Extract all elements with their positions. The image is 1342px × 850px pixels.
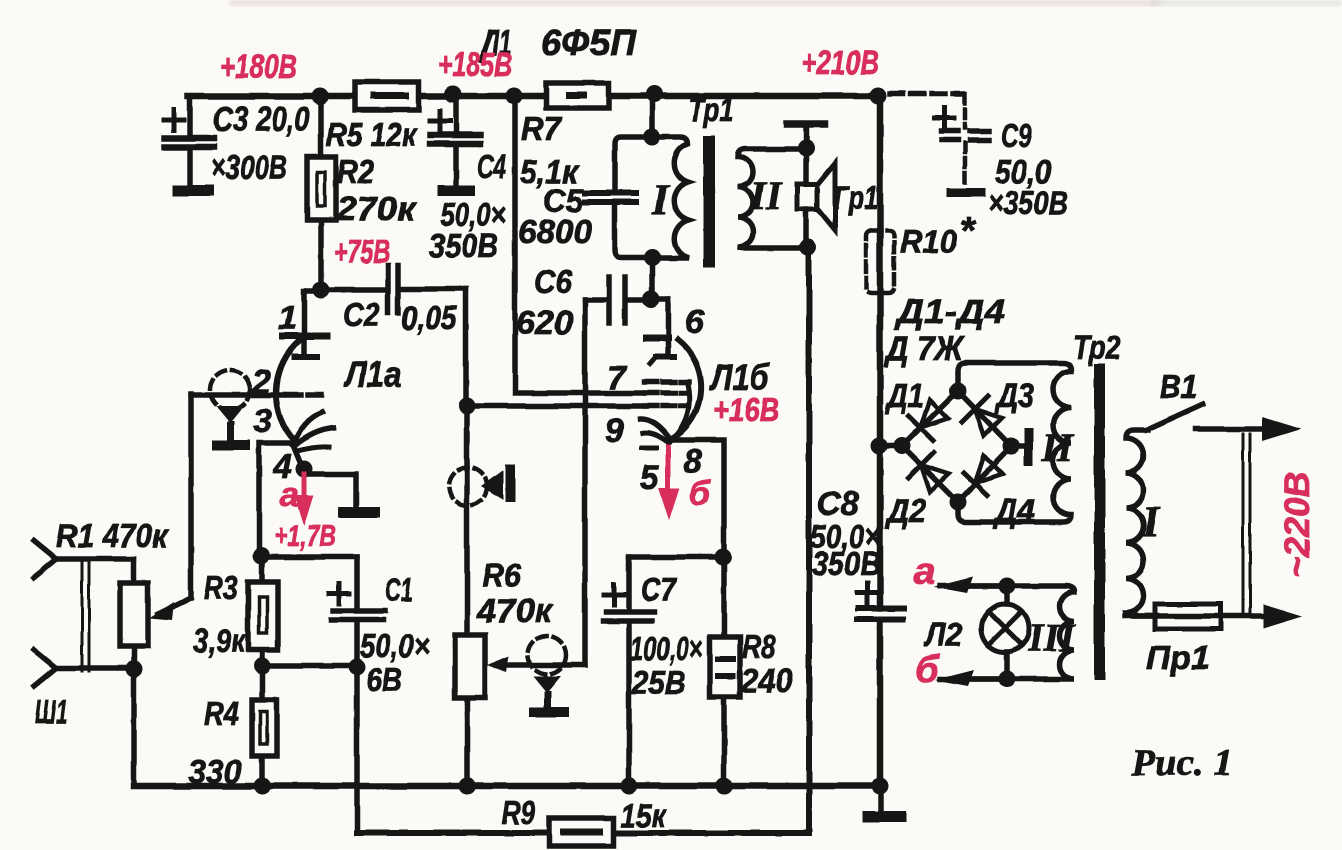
svg-text:620: 620: [516, 304, 574, 341]
svg-text:I: I: [1141, 497, 1161, 546]
node C1 bottom junction: [349, 659, 366, 676]
svg-text:C8: C8: [816, 485, 860, 522]
wire speaker bottom stem: [803, 209, 809, 247]
svg-text:350В: 350В: [812, 545, 881, 582]
test jack socket at R6: [528, 636, 569, 717]
envelope L1a: [276, 340, 300, 441]
test jack socket at grid: [210, 370, 250, 450]
input connector Sh1: [34, 541, 136, 686]
node anode C6 junction: [643, 291, 660, 308]
envelope L1b: [668, 340, 701, 441]
svg-text:15к: 15к: [621, 797, 667, 834]
capacitor C3: [164, 96, 214, 196]
node grid feed junction: [459, 398, 476, 415]
red measure arrow a at L1a: [296, 474, 312, 522]
svg-text:+185В: +185В: [438, 46, 512, 84]
diode bridge D1-D4: [871, 383, 1034, 511]
mains connector double line: [1243, 434, 1250, 617]
svg-text:III: III: [1027, 615, 1076, 660]
node screen rail junction: [506, 88, 523, 105]
transformer Tr2 winding II loop from bridge: [958, 363, 1071, 522]
resistor R2: [307, 96, 336, 290]
wiper R6: [497, 662, 585, 668]
svg-text:C3 20,0: C3 20,0: [213, 100, 310, 139]
tube L1a triode: [191, 291, 380, 554]
capacitor C5: [585, 193, 636, 202]
wiper R1: [158, 394, 191, 614]
svg-text:350В: 350В: [429, 227, 498, 264]
svg-text:а: а: [280, 476, 299, 514]
potentiometer R1: [120, 394, 191, 669]
ground chassis below C8: [862, 786, 906, 822]
svg-text:II: II: [1041, 425, 1075, 470]
capacitor C8: [857, 583, 904, 619]
svg-text:R7: R7: [521, 110, 563, 147]
capacitor C2: [321, 266, 466, 313]
svg-text:+180В: +180В: [220, 48, 297, 86]
svg-text:В1: В1: [1160, 368, 1197, 405]
svg-text:Гр1: Гр1: [834, 179, 878, 216]
svg-text:Д4: Д4: [992, 492, 1035, 529]
speaker Gr1: [797, 163, 835, 230]
svg-text:R1 470к: R1 470к: [56, 517, 170, 554]
capacitor C4: [430, 96, 480, 196]
svg-text:6Ф5П: 6Ф5П: [541, 22, 637, 63]
transformer Tr2 winding III with leads: [940, 586, 1074, 679]
svg-text:а: а: [914, 551, 935, 593]
svg-text:Д3: Д3: [994, 377, 1034, 414]
wire suppressor to cathode: [674, 384, 690, 438]
node bridge bottom vertex: [950, 494, 967, 511]
capacitor C6: [585, 277, 651, 323]
svg-text:+16В: +16В: [713, 391, 779, 428]
node lamp top: [999, 578, 1016, 595]
wire anode to C2: [306, 288, 321, 294]
wire Tr1 bottom to anode node: [649, 258, 655, 299]
lamp L2: [981, 586, 1029, 679]
svg-text:R4: R4: [204, 695, 239, 732]
wire heater pin4 lead: [293, 445, 302, 467]
wire R3 C1 bottom link: [262, 663, 357, 669]
wire output down to feedback rail: [806, 247, 812, 833]
wire bridge left lead: [880, 443, 902, 449]
svg-text:C1: C1: [385, 571, 413, 608]
svg-text:6В: 6В: [366, 661, 402, 698]
wire speaker top stem: [803, 124, 809, 184]
transformer Tr2 core: [1094, 364, 1105, 680]
wire C2 down to grid node: [463, 289, 469, 406]
svg-text:Тр1: Тр1: [688, 91, 734, 128]
svg-text:Д 7Ж: Д 7Ж: [883, 330, 965, 368]
capacitor C9 dashed: [934, 94, 989, 197]
svg-text:Д2: Д2: [884, 492, 926, 529]
wire pin9 grid wire: [467, 403, 645, 409]
cathode L1b: [640, 419, 670, 439]
node bridge left vertex: [871, 438, 888, 455]
svg-text:R9: R9: [502, 794, 536, 831]
grid L1b suppressor dashes: [645, 379, 689, 385]
svg-text:Рис. 1: Рис. 1: [1130, 742, 1233, 784]
svg-text:C9: C9: [1001, 117, 1032, 154]
wire R1 down to ground rail: [131, 669, 137, 786]
capacitor C7: [603, 557, 655, 786]
wire main HV vertical: [877, 96, 884, 786]
anode L1a pin 1: [283, 333, 327, 340]
svg-text:240: 240: [740, 662, 794, 699]
node pin8 C7 junction: [715, 549, 732, 566]
wire anode node to lead: [651, 296, 668, 302]
label C3 value: [211, 100, 310, 187]
svg-text:R8: R8: [742, 628, 777, 665]
svg-text:Тр2: Тр2: [1073, 329, 1122, 366]
wire cathode node to C1: [259, 554, 357, 560]
svg-text:II: II: [749, 173, 783, 218]
svg-text:*: *: [960, 210, 977, 252]
svg-text:Ш1: Ш1: [35, 693, 68, 730]
svg-text:7: 7: [607, 359, 628, 397]
tube L1b pentode: [640, 299, 724, 556]
resistor R5: [355, 82, 419, 110]
transformer Tr1 secondary winding II: [738, 149, 808, 248]
svg-text:Д1: Д1: [884, 377, 924, 414]
potentiometer R6: [455, 406, 585, 786]
test jack socket middle: [449, 464, 515, 505]
svg-text:1: 1: [278, 299, 297, 337]
svg-text:6800: 6800: [518, 213, 593, 250]
wire mains top lead: [1196, 426, 1268, 432]
svg-text:Л1а: Л1а: [342, 354, 401, 395]
svg-text:2: 2: [251, 363, 271, 401]
node Tr1 primary bottom: [644, 250, 661, 267]
node rail R4: [254, 778, 271, 795]
node R3 top junction: [253, 548, 270, 565]
wire feedback rail R9: [357, 830, 809, 836]
svg-text:R2: R2: [337, 153, 375, 190]
wire anode lead pin 6: [665, 299, 671, 338]
svg-text:C2: C2: [343, 296, 381, 333]
node bridge top vertex: [950, 383, 967, 400]
svg-text:+210В: +210В: [801, 44, 879, 82]
node R7 right junction: [646, 86, 663, 103]
svg-text:9: 9: [605, 412, 624, 450]
node +210V junction: [870, 88, 887, 105]
speaker Gr1 terminal bar: [787, 120, 824, 128]
node pin4 junction: [296, 461, 313, 478]
svg-text:Пр1: Пр1: [1146, 639, 1210, 676]
node R1 bottom junction: [126, 661, 143, 678]
arrow to heater point a: [965, 583, 1007, 589]
diode D3: [975, 409, 1002, 436]
wire bridge arm D1: [899, 388, 961, 449]
wire C1 node down to feedback rail: [354, 667, 360, 833]
node C4 junction: [445, 86, 462, 103]
node rail C7: [621, 778, 638, 795]
node C8 ground junction: [872, 778, 889, 795]
diode D4: [975, 456, 1002, 483]
node rail R8: [716, 778, 733, 795]
node R2 bottom / C2 / anode junction: [313, 282, 330, 299]
svg-text:3,9к: 3,9к: [193, 622, 247, 659]
wire R7 to Tr1 top: [649, 94, 655, 137]
svg-text:~220В: ~220В: [1278, 472, 1317, 578]
node +180V junction: [312, 88, 329, 105]
grid L1b pin 9 dashes: [645, 403, 687, 409]
resistor R10 dashed: [866, 231, 894, 293]
wire grid lead: [191, 392, 283, 398]
svg-text:Л2: Л2: [923, 616, 962, 653]
node rail R6: [459, 778, 476, 795]
svg-text:+1,7В: +1,7В: [274, 518, 336, 553]
wire cathode pin 8 to C7 R8: [670, 440, 724, 556]
svg-text:0,05: 0,05: [401, 299, 458, 336]
grid L1b pin 7 dashes: [645, 390, 687, 396]
svg-text:100,0×: 100,0×: [630, 630, 703, 667]
red measure arrow b at L1b: [660, 447, 678, 517]
svg-text:Д1-Д4: Д1-Д4: [894, 293, 1005, 331]
wire mains bottom lead through fuse: [1125, 613, 1270, 619]
ink stroke over L1 label: [480, 30, 492, 63]
node Tr1 primary top: [644, 129, 661, 146]
wire dashed rail to C9: [890, 91, 963, 97]
svg-text:R6: R6: [482, 557, 522, 594]
svg-text:×350В: ×350В: [988, 184, 1068, 221]
wire cathode left stub to R3: [259, 443, 292, 554]
transformer Tr1 core: [703, 136, 715, 267]
fuse Pr1: [1155, 604, 1221, 629]
svg-text:5: 5: [640, 459, 660, 497]
svg-text:470к: 470к: [476, 592, 554, 629]
transformer Tr1 primary winding I with C5: [615, 137, 688, 258]
svg-text:R3: R3: [204, 569, 238, 606]
node bridge right vertex: [1003, 438, 1020, 455]
resistor R7: [546, 83, 609, 108]
wire pin7 screen feed: [515, 96, 644, 393]
svg-text:R5 12к: R5 12к: [326, 116, 418, 153]
svg-text:C6: C6: [534, 263, 573, 300]
diode D2: [921, 465, 949, 492]
wire bridge right output to chassis: [1011, 443, 1023, 449]
diode D1: [921, 400, 948, 427]
anode L1b: [646, 335, 668, 342]
capacitor C1: [329, 557, 385, 667]
svg-text:б: б: [915, 649, 940, 691]
node secondary top: [798, 140, 815, 157]
svg-text:3: 3: [253, 402, 272, 440]
svg-text:270к: 270к: [336, 190, 418, 227]
transformer Tr2 winding I: [1126, 430, 1155, 616]
resistor R9: [549, 818, 614, 846]
wire feedback riser C6 to R6 wiper: [582, 300, 588, 665]
wire pin4 to chassis: [304, 469, 356, 507]
resistor R3: [248, 557, 278, 666]
svg-text:25В: 25В: [631, 664, 686, 701]
wire top supply rail: [188, 93, 878, 100]
svg-text:I: I: [651, 175, 671, 224]
grid L1a pin 2 dashes: [287, 392, 321, 398]
svg-text:×300В: ×300В: [211, 149, 287, 187]
node R3 bottom junction: [254, 658, 271, 675]
wire main ground rail: [134, 783, 880, 790]
svg-text:б: б: [689, 475, 711, 513]
node lamp bottom: [999, 671, 1016, 688]
wire bridge arm D3: [955, 388, 1014, 449]
resistor R8: [710, 557, 740, 786]
svg-text:R10: R10: [900, 223, 958, 260]
svg-text:330: 330: [188, 753, 243, 790]
cathode L1a: [293, 412, 322, 445]
node secondary bottom: [800, 239, 817, 256]
svg-text:6: 6: [685, 303, 705, 341]
svg-text:C7: C7: [641, 571, 677, 608]
wire bridge arm D4: [955, 443, 1014, 505]
arrow to heater point b: [965, 676, 1007, 682]
resistor R4: [252, 666, 277, 786]
svg-text:50,0×: 50,0×: [360, 627, 430, 664]
svg-text:+75В: +75В: [334, 233, 390, 270]
svg-text:C4: C4: [477, 148, 506, 185]
wire bridge arm D2: [899, 443, 961, 505]
switch V1: [1146, 404, 1203, 430]
wire C7 top link: [629, 554, 723, 560]
